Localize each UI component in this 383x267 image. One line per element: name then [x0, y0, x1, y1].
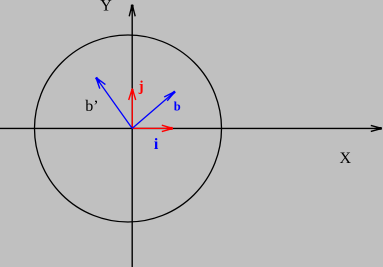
vector j (red, up)	[129, 89, 136, 129]
X axis line	[0, 127, 377, 129]
svg-text:j: j	[138, 79, 144, 95]
svg-text:i: i	[154, 136, 159, 153]
svg-text:b’: b’	[85, 98, 98, 115]
vector i (red, right)	[132, 125, 173, 131]
svg-text:X: X	[340, 150, 352, 167]
Y axis arrowhead	[129, 5, 135, 17]
X axis arrowhead	[371, 125, 382, 131]
circle (unit circle)	[35, 35, 222, 222]
svg-text:b: b	[174, 99, 181, 113]
vector b' (blue, upper left)	[96, 78, 132, 129]
Y axis line	[131, 5, 133, 267]
vector b (blue, upper right)	[132, 92, 175, 129]
svg-text:Y: Y	[100, 0, 112, 15]
